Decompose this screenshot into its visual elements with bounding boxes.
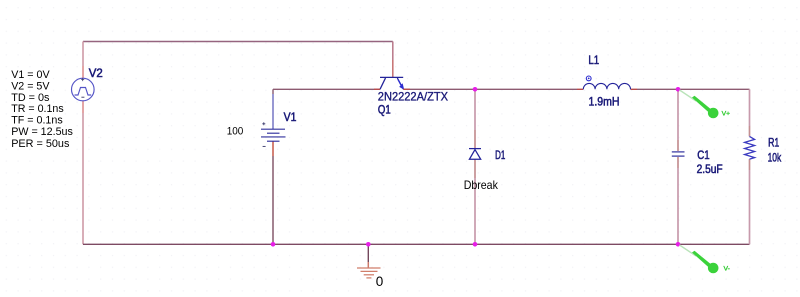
- wire base vertical: [392, 42, 394, 61]
- wire bottom rail: [83, 243, 750, 245]
- svg-text:V1 = 0V: V1 = 0V: [11, 69, 50, 81]
- pin D1 bottom: [474, 160, 476, 179]
- V2 minus mark: [81, 96, 84, 98]
- wire D1 branch bottom: [474, 178, 476, 244]
- collector line: [380, 78, 386, 89]
- pin R1 bottom: [749, 159, 751, 170]
- svg-text:Dbreak: Dbreak: [464, 178, 499, 192]
- junction node B (output top): [676, 87, 681, 92]
- svg-text:2.5uF: 2.5uF: [697, 162, 723, 176]
- capacitor C1: [672, 152, 685, 156]
- L1 phase dot: [586, 76, 591, 81]
- inductor L1: [583, 83, 630, 89]
- wire V1 branch: [272, 89, 274, 94]
- ground 0: [357, 268, 381, 278]
- V2 plus mark: [81, 78, 84, 81]
- junction node A (switch node): [473, 87, 478, 92]
- junction C1 bottom: [676, 242, 681, 247]
- Q1 emitter arrow: [399, 83, 404, 90]
- voltage source V2: [72, 78, 95, 101]
- wire node B to R1 corner: [678, 88, 750, 90]
- V1 plus mark: [262, 122, 265, 125]
- svg-text:1.9mH: 1.9mH: [589, 94, 620, 108]
- pin Q1 emitter stub: [403, 88, 410, 90]
- svg-text:TD = 0s: TD = 0s: [11, 92, 50, 104]
- svg-text:TR = 0.1ns: TR = 0.1ns: [11, 103, 64, 115]
- wire R1 branch bottom: [749, 170, 751, 244]
- svg-text:PW = 12.5us: PW = 12.5us: [11, 126, 73, 138]
- svg-text:10k: 10k: [768, 151, 782, 165]
- pin V1 bottom: [272, 142, 274, 157]
- wire D1 branch top: [474, 89, 476, 130]
- pin Q1 collector stub: [374, 88, 380, 90]
- pin L1 left: [577, 88, 583, 90]
- pin C1 top: [677, 140, 679, 151]
- pin L1 right: [631, 88, 638, 90]
- probe V-: [680, 245, 730, 273]
- pin V1 top: [272, 94, 274, 129]
- wire C1 branch top: [677, 89, 679, 140]
- battery V1: [261, 129, 286, 141]
- wire V1 to collector: [273, 88, 380, 90]
- svg-text:C1: C1: [697, 148, 709, 162]
- wire left rail: [82, 42, 84, 67]
- svg-text:TF = 0.1ns: TF = 0.1ns: [11, 114, 63, 126]
- wire C1 branch bottom: [677, 168, 679, 244]
- V1 minus mark: [263, 145, 266, 147]
- svg-text:PER = 50us: PER = 50us: [11, 138, 70, 150]
- svg-text:V-: V-: [724, 265, 730, 272]
- pin R1 top: [749, 126, 751, 136]
- wire ground stub: [367, 244, 369, 262]
- svg-text:V+: V+: [722, 110, 731, 117]
- svg-text:D1: D1: [495, 148, 505, 162]
- wire L1 to node B: [637, 88, 678, 90]
- wire node A to L1: [475, 88, 577, 90]
- svg-text:V2: V2: [89, 66, 103, 80]
- svg-text:0: 0: [376, 274, 384, 289]
- junction D1 bottom: [473, 242, 478, 247]
- junction V1 bottom: [271, 242, 276, 247]
- base bar: [380, 76, 403, 78]
- resistor R1: [745, 136, 755, 159]
- wire R1 branch top: [749, 89, 751, 126]
- svg-text:Q1: Q1: [378, 102, 391, 116]
- svg-text:2N2222A/ZTX: 2N2222A/ZTX: [378, 90, 448, 104]
- svg-text:V2 = 5V: V2 = 5V: [11, 81, 50, 93]
- svg-text:L1: L1: [588, 53, 599, 67]
- junction ground: [366, 242, 371, 247]
- probe V+: [680, 90, 731, 118]
- wire emitter to node A: [403, 88, 475, 90]
- emitter line: [397, 78, 403, 89]
- svg-text:V1: V1: [284, 110, 297, 124]
- svg-text:R1: R1: [768, 135, 779, 149]
- wire left rail lower: [82, 101, 84, 113]
- transistor Q1: [380, 77, 403, 89]
- pin D1 top: [474, 130, 476, 148]
- pin C1 bottom: [677, 157, 679, 168]
- svg-text:100: 100: [227, 126, 244, 138]
- wire V1 to bottom rail: [272, 156, 274, 244]
- diode D1: [469, 149, 481, 160]
- wire top rail: [83, 41, 393, 43]
